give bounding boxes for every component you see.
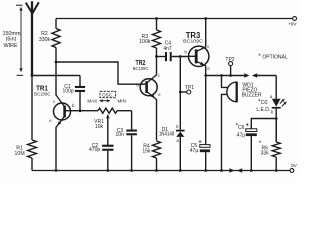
node C4-TR3 base junction: [179, 55, 182, 58]
wire C1 to TR1 base: [79, 92, 81, 111]
svg-text:BC109C: BC109C: [133, 66, 149, 71]
test point TP2: [230, 66, 232, 76]
wire TR3 emitter to C5: [205, 76, 207, 145]
node 0V rail junction D1: [179, 169, 182, 172]
svg-text:OSC.: OSC.: [102, 92, 113, 97]
svg-text:WIRE: WIRE: [3, 43, 17, 49]
svg-text:C6: C6: [238, 125, 245, 131]
svg-text:k: k: [176, 124, 179, 129]
svg-text:BC109C: BC109C: [183, 38, 203, 43]
wire LED node to C6: [251, 119, 276, 129]
LED D2 light arrows: [280, 100, 284, 104]
LED D2: [272, 99, 281, 107]
resistor R3: [156, 19, 158, 31]
label OSC box: [100, 91, 115, 97]
svg-text:MIN: MIN: [117, 98, 125, 103]
node 0V rail junction C5: [204, 169, 207, 172]
terminal +9V: [293, 17, 297, 21]
svg-text:MAX: MAX: [87, 98, 97, 103]
node antenna junction: [31, 74, 34, 77]
svg-text:4n7: 4n7: [163, 46, 172, 52]
piezo buzzer WD1: [222, 76, 228, 88]
svg-text:a: a: [176, 138, 179, 143]
transistor TR3: [189, 46, 209, 66]
resistor R4: [153, 141, 161, 158]
wire VR1 to C3: [131, 111, 133, 130]
node WD1 top junction: [220, 74, 223, 77]
svg-text:15k: 15k: [142, 149, 151, 155]
capacitor C3: [126, 130, 137, 132]
VR1 wiper: [107, 118, 109, 145]
svg-text:+: +: [246, 123, 250, 129]
svg-text:b: b: [185, 50, 188, 55]
svg-text:e: e: [207, 66, 210, 71]
svg-text:D2: D2: [261, 100, 268, 106]
svg-text:47µ: 47µ: [237, 133, 246, 139]
svg-text:a: a: [270, 94, 273, 99]
wire optional branch: [252, 73, 257, 78]
resistor R1: [31, 76, 33, 141]
optional separator arrows on 0V rail: [229, 168, 234, 173]
node 0V rail junction WD1: [220, 169, 223, 172]
wire R2 bottom to TR2 base: [56, 62, 140, 84]
svg-text:c: c: [53, 99, 55, 104]
node TR3 emitter junction: [204, 74, 207, 77]
resistor R6: [275, 119, 277, 143]
transistor TR2: [140, 79, 157, 96]
svg-text:c: c: [158, 73, 160, 78]
svg-text:b: b: [72, 103, 75, 108]
node TR3 collector rail junction: [204, 17, 207, 20]
node R2 bottom junction: [55, 61, 58, 64]
svg-text:*: *: [258, 53, 261, 60]
node 0V rail junction TR1 emitter: [55, 169, 58, 172]
svg-text:(6in): (6in): [6, 36, 17, 42]
svg-text:e: e: [158, 92, 161, 97]
potentiometer VR1: [98, 108, 117, 113]
svg-text:10n: 10n: [116, 132, 125, 138]
svg-text:OPTIONAL: OPTIONAL: [262, 55, 288, 61]
svg-text:1N4148: 1N4148: [159, 131, 175, 137]
node TP1 junction: [179, 91, 182, 94]
node R3 top: [155, 17, 158, 20]
svg-text:330k: 330k: [39, 37, 51, 43]
transistor TR1: [54, 103, 71, 120]
wire 0V rail: [32, 170, 290, 172]
svg-text:470p: 470p: [89, 147, 100, 153]
svg-text:TP1: TP1: [185, 85, 194, 91]
node 0V rail junction R6: [275, 169, 278, 172]
wire TR1 base to VR1: [80, 110, 98, 112]
test point TP1: [180, 91, 187, 93]
svg-text:c: c: [207, 44, 209, 49]
svg-text:33k: 33k: [261, 150, 270, 156]
dimension arrow 150mm wire length: [20, 8, 22, 70]
svg-text:100p: 100p: [62, 89, 73, 95]
node TP2 junction: [229, 74, 232, 77]
diode D1: [176, 130, 185, 132]
node TR1 base junction: [79, 109, 82, 112]
capacitor C1: [75, 86, 85, 88]
wire C4 node down to D1: [179, 57, 181, 130]
svg-text:10k: 10k: [95, 124, 104, 130]
svg-text:L.E.D.: L.E.D.: [256, 107, 270, 113]
svg-text:e: e: [49, 118, 52, 123]
node 0V rail junction R4: [155, 169, 158, 172]
svg-text:+9V: +9V: [288, 22, 297, 28]
wire antenna to C1: [32, 75, 80, 77]
svg-text:0V: 0V: [291, 163, 298, 169]
terminal 0V: [290, 169, 294, 173]
node 0V rail junction C6: [250, 169, 253, 172]
svg-text:TP2: TP2: [225, 57, 234, 63]
wire TR3 emitter to optional connector: [206, 75, 245, 77]
node 0V rail junction C2: [106, 169, 109, 172]
svg-text:10M: 10M: [15, 151, 25, 157]
svg-text:BC109C: BC109C: [34, 92, 51, 97]
capacitor C2: [102, 145, 113, 147]
capacitor C4: [157, 56, 166, 58]
svg-text:47µ: 47µ: [190, 148, 199, 154]
svg-text:100k: 100k: [139, 39, 151, 45]
wire +9V rail: [56, 18, 292, 20]
node 0V rail junction C3: [130, 169, 133, 172]
node R3 bottom junction: [155, 55, 158, 58]
node LED cathode junction: [275, 117, 278, 120]
resistor R2: [55, 19, 57, 29]
antenna AE1: [31, 1, 33, 75]
svg-text:k: k: [271, 110, 274, 115]
